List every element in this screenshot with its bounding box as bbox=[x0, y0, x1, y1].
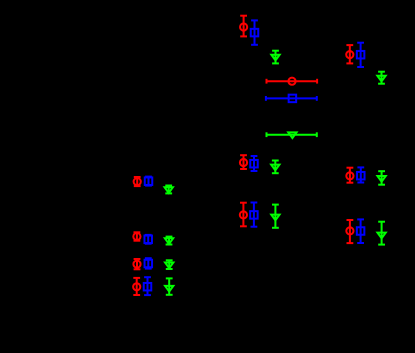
point R7 red circle bbox=[240, 203, 247, 227]
point G3 green triangle wide x-error bbox=[267, 132, 317, 138]
point R8 red circle bbox=[346, 220, 353, 243]
point G7 green triangle bbox=[271, 205, 279, 228]
point G6 green triangle bbox=[377, 171, 385, 185]
point G9 green triangle bbox=[165, 237, 173, 245]
point B6 blue square bbox=[357, 167, 365, 182]
point R4 red circle bbox=[134, 177, 141, 186]
point G4 green triangle bbox=[165, 186, 173, 194]
point B10 blue square bbox=[145, 258, 153, 268]
point R10 red circle bbox=[133, 259, 140, 269]
point B4 blue square bbox=[145, 177, 153, 186]
point G11 green triangle bbox=[165, 278, 173, 294]
point B11 blue square bbox=[144, 277, 152, 295]
point R9 red circle bbox=[133, 232, 140, 240]
point G1 green triangle bbox=[271, 51, 279, 64]
point R11 red circle bbox=[133, 278, 140, 295]
point R1 red circle bbox=[240, 16, 247, 37]
point R6 red circle bbox=[346, 168, 353, 183]
point G5 green triangle bbox=[271, 161, 279, 174]
point B7 blue square bbox=[250, 203, 258, 227]
point R2 red circle bbox=[346, 45, 353, 63]
point R5 red circle bbox=[240, 155, 247, 169]
point G8 green triangle bbox=[377, 222, 385, 245]
point G2 green triangle bbox=[377, 72, 385, 84]
point B1 blue square bbox=[251, 20, 259, 44]
point B3 blue square wide x-error bbox=[266, 95, 317, 103]
point B9 blue square bbox=[144, 235, 152, 244]
point B5 blue square bbox=[250, 156, 258, 171]
point B2 blue square bbox=[357, 43, 365, 67]
point B8 blue square bbox=[357, 219, 365, 243]
point R3 red circle wide x-error bbox=[267, 78, 318, 85]
point G10 green triangle bbox=[165, 260, 173, 269]
